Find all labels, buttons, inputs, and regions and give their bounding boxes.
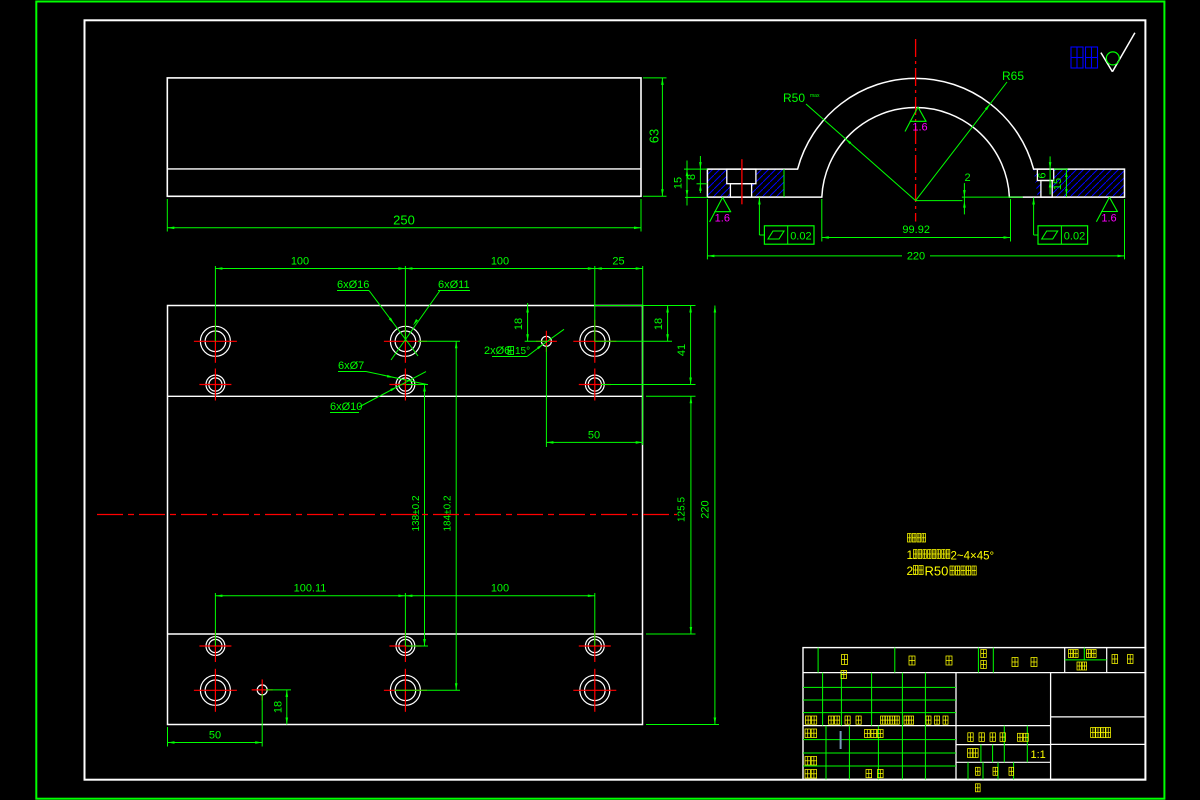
svg-text:0.02: 0.02 — [1064, 231, 1085, 243]
svg-text:220: 220 — [907, 250, 925, 262]
svg-text:6xØ16: 6xØ16 — [337, 279, 369, 291]
svg-text:100: 100 — [491, 256, 509, 268]
svg-text:2: 2 — [964, 172, 970, 184]
svg-text:2~4×45°: 2~4×45° — [951, 551, 995, 563]
svg-text:63: 63 — [647, 129, 662, 143]
svg-text:100.11: 100.11 — [294, 583, 327, 595]
svg-text:125.5: 125.5 — [677, 497, 688, 522]
svg-text:15: 15 — [1052, 178, 1064, 190]
svg-text:18: 18 — [272, 701, 284, 713]
svg-text:18: 18 — [513, 318, 525, 330]
svg-text:15: 15 — [673, 177, 685, 189]
svg-text:0.02: 0.02 — [790, 231, 811, 243]
svg-text:18: 18 — [653, 318, 665, 330]
svg-text:50: 50 — [588, 430, 600, 442]
svg-text:8: 8 — [686, 174, 698, 180]
svg-text:6xØ11: 6xØ11 — [438, 279, 470, 291]
svg-text:100: 100 — [491, 583, 509, 595]
svg-text:25: 25 — [612, 256, 624, 268]
svg-text:1.6: 1.6 — [715, 213, 730, 225]
svg-text:138±0.2: 138±0.2 — [411, 495, 422, 532]
svg-text:184±0.2: 184±0.2 — [443, 495, 454, 532]
svg-text:99.92: 99.92 — [902, 224, 930, 236]
svg-text:2.: 2. — [907, 564, 917, 578]
svg-text:R65: R65 — [1002, 69, 1024, 83]
svg-text:1.6: 1.6 — [1101, 213, 1116, 225]
svg-text:6xØ10: 6xØ10 — [330, 401, 362, 413]
svg-text:100: 100 — [291, 256, 309, 268]
svg-text:2xØ6: 2xØ6 — [484, 345, 510, 357]
svg-text:1.6: 1.6 — [912, 122, 927, 134]
svg-text:R50: R50 — [783, 91, 805, 105]
svg-text:41: 41 — [676, 344, 688, 356]
svg-text:R50: R50 — [925, 564, 949, 579]
svg-text:6: 6 — [1037, 172, 1049, 178]
svg-text:1:1: 1:1 — [1031, 749, 1046, 761]
svg-text:50: 50 — [209, 730, 221, 742]
svg-text:250: 250 — [393, 213, 415, 228]
svg-text:max: max — [810, 93, 820, 99]
svg-text:6xØ7: 6xØ7 — [338, 360, 364, 372]
svg-text:220: 220 — [700, 500, 712, 518]
